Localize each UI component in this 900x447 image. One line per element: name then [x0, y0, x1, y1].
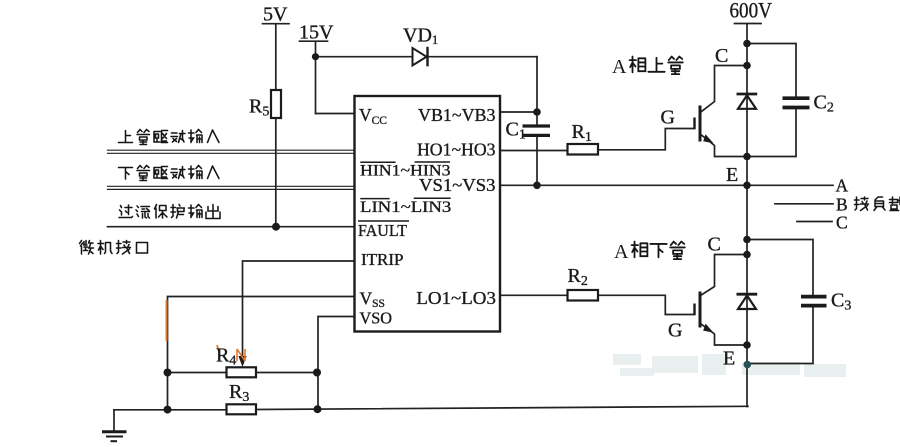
- svg-text:C: C: [708, 234, 721, 256]
- svg-text:FAULT: FAULT: [358, 221, 407, 240]
- svg-text:ITRIP: ITRIP: [361, 250, 404, 269]
- svg-text:B: B: [836, 195, 848, 215]
- svg-text:A: A: [836, 176, 849, 196]
- svg-text:LO1~LO3: LO1~LO3: [416, 288, 496, 308]
- svg-text:G: G: [668, 320, 682, 342]
- svg-text:C: C: [715, 45, 728, 67]
- svg-text:A: A: [612, 56, 627, 78]
- svg-text:A: A: [614, 241, 629, 263]
- svg-text:600V: 600V: [730, 0, 773, 23]
- svg-text:C: C: [836, 213, 848, 233]
- svg-text:LIN1~LIN3: LIN1~LIN3: [360, 199, 451, 216]
- svg-text:G: G: [661, 107, 675, 129]
- svg-text:E: E: [723, 348, 735, 370]
- svg-text:VB1~VB3: VB1~VB3: [418, 105, 496, 125]
- svg-text:5V: 5V: [263, 4, 288, 26]
- svg-text:VSO: VSO: [360, 309, 393, 328]
- svg-text:HO1~HO3: HO1~HO3: [417, 139, 496, 159]
- svg-text:VS1~VS3: VS1~VS3: [419, 175, 496, 195]
- svg-text:E: E: [726, 164, 738, 186]
- svg-text:15V: 15V: [299, 22, 334, 44]
